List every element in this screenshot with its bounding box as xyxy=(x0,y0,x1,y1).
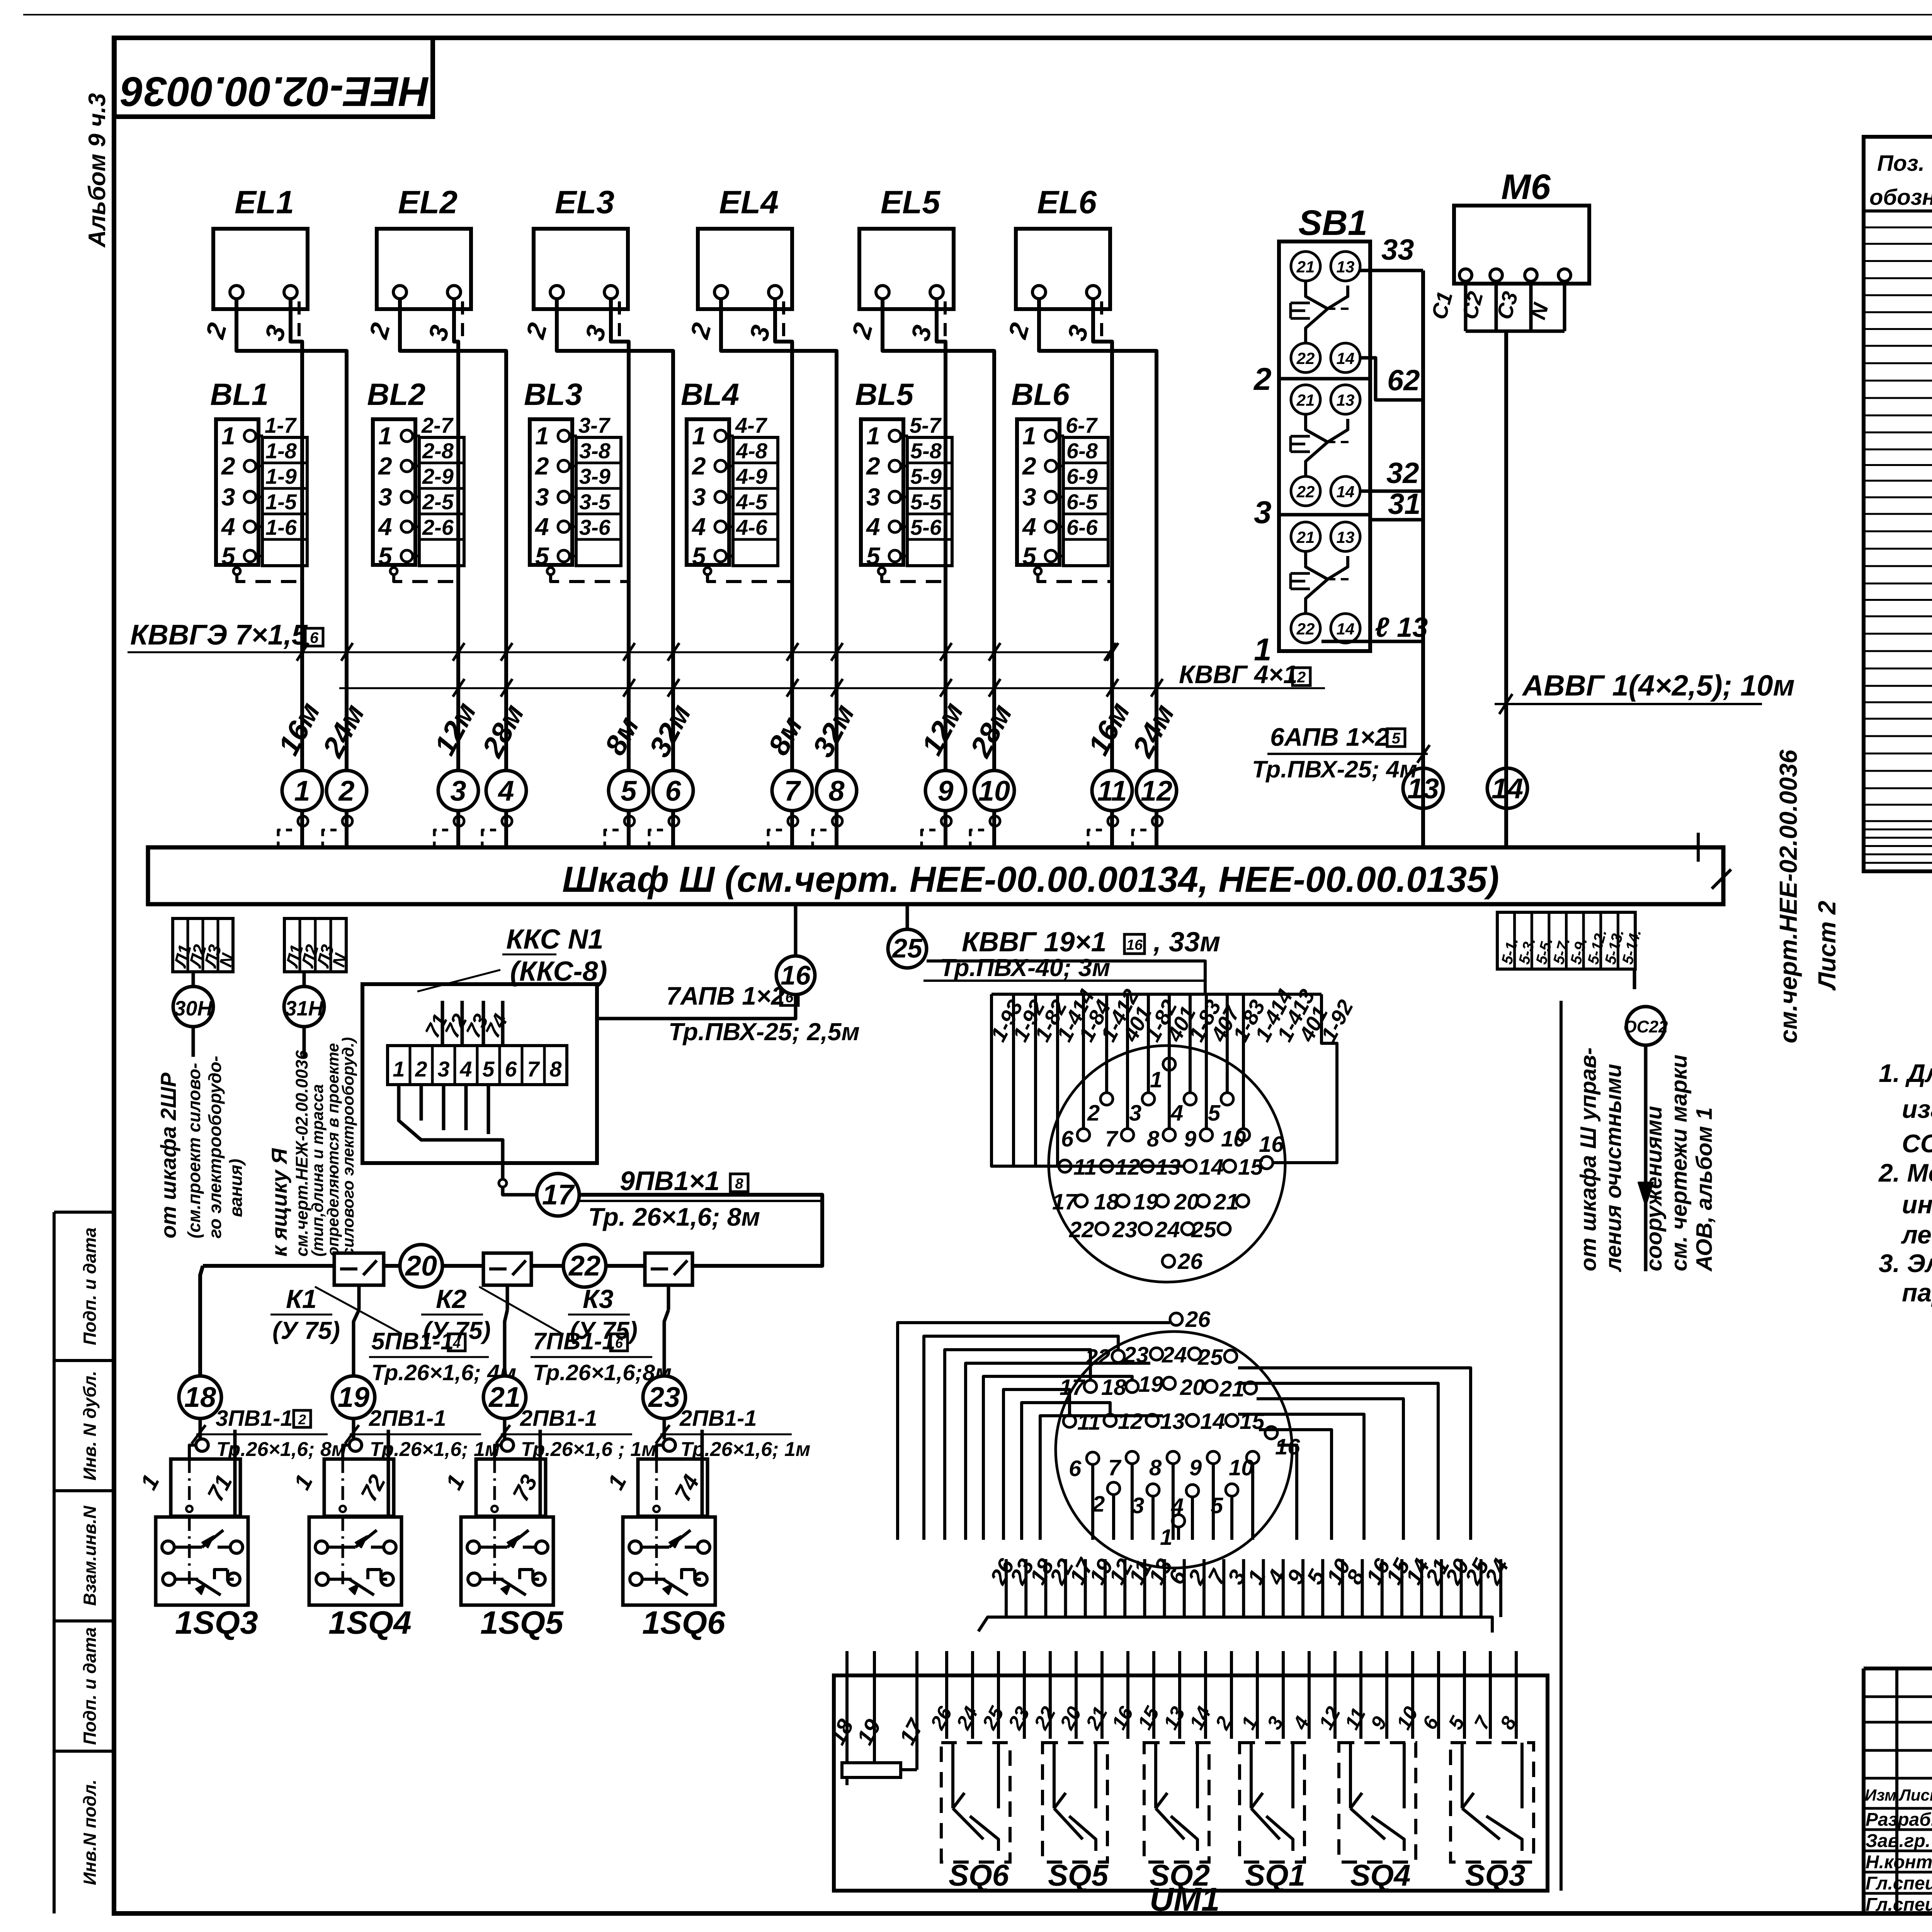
svg-text:13: 13 xyxy=(1337,391,1355,409)
svg-text:5: 5 xyxy=(1211,1493,1223,1518)
lamp EL3 box xyxy=(534,229,628,309)
node 22 xyxy=(563,1245,606,1287)
svg-text:1-7: 1-7 xyxy=(265,413,297,437)
SB1 wire 32 xyxy=(1360,490,1423,493)
cable crossing tick xyxy=(1151,679,1163,697)
svg-text:5: 5 xyxy=(482,1057,495,1081)
svg-text:1: 1 xyxy=(1254,632,1272,667)
M6 feeder wire xyxy=(1504,331,1508,847)
seal bracket below node 5 xyxy=(605,830,619,850)
upper connector pin 6 xyxy=(1077,1129,1090,1141)
upper connector pin 11 xyxy=(1059,1160,1071,1172)
lower bundle wire 8 xyxy=(1361,1559,1364,1617)
svg-text:5: 5 xyxy=(221,542,236,570)
cable crossing tick xyxy=(940,679,952,697)
lower nested wire right 3 xyxy=(1238,1414,1364,1540)
lower bundle wire 17 xyxy=(1084,1559,1087,1617)
svg-text:12: 12 xyxy=(1118,1409,1143,1434)
upper connector pin 13 xyxy=(1141,1160,1153,1172)
lower connector pin 1 xyxy=(1172,1515,1185,1527)
svg-text:3: 3 xyxy=(866,483,880,511)
lower bundle wire 22 xyxy=(1064,1559,1067,1617)
svg-text:Тр.ПВХ-25; 2,5м: Тр.ПВХ-25; 2,5м xyxy=(668,1018,860,1046)
switch 1SQ4 contacts xyxy=(315,1541,328,1553)
junction dot xyxy=(499,1179,507,1187)
BL4 dashed ground wire xyxy=(704,568,711,575)
svg-text:2-8: 2-8 xyxy=(422,439,454,463)
svg-text:ления очистными: ления очистными xyxy=(1601,1064,1626,1272)
upper connector pin 23 xyxy=(1139,1223,1151,1235)
upper connector drop wires xyxy=(1168,994,1171,1058)
wire 3 of EL3 xyxy=(611,299,629,847)
node 20 xyxy=(400,1245,442,1287)
lower connector pin 7 xyxy=(1126,1451,1138,1464)
upper connector pin 24 xyxy=(1182,1223,1194,1235)
svg-text:BL4: BL4 xyxy=(681,377,739,412)
cable crossing tick xyxy=(297,643,308,661)
title block small table xyxy=(1895,1668,1898,1913)
switch 1SQ5 entry loop xyxy=(501,1439,514,1451)
svg-text:КВВГ 19×1: КВВГ 19×1 xyxy=(962,927,1107,957)
cable crossing tick xyxy=(453,679,464,697)
cable crossing tick xyxy=(989,679,1000,697)
lower bundle wire 26 xyxy=(1005,1559,1008,1617)
svg-text:5: 5 xyxy=(378,542,393,570)
svg-text:Тр. 26×1,6; 8м: Тр. 26×1,6; 8м xyxy=(588,1202,760,1231)
svg-text:4-9: 4-9 xyxy=(736,464,767,488)
switch 1SQ6 dash-dot actuator xyxy=(655,1459,658,1507)
svg-text:1SQ5: 1SQ5 xyxy=(480,1604,564,1641)
svg-text:19: 19 xyxy=(1138,1372,1163,1397)
svg-text:SQ1: SQ1 xyxy=(1245,1858,1305,1892)
parts table position column subdivisions xyxy=(1864,226,1932,228)
cable crossing tick xyxy=(989,643,1000,661)
lower nested wire right 1 xyxy=(1277,1445,1297,1540)
svg-text:6-9: 6-9 xyxy=(1066,464,1098,488)
svg-text:Подп. и дата: Подп. и дата xyxy=(80,1228,100,1345)
svg-text:Изм: Изм xyxy=(1865,1786,1896,1804)
node 21 xyxy=(483,1376,526,1418)
cable crossing tick xyxy=(831,679,843,697)
svg-text:1SQ4: 1SQ4 xyxy=(328,1604,412,1641)
svg-text:6-7: 6-7 xyxy=(1066,413,1098,437)
svg-text:3: 3 xyxy=(535,483,549,511)
lamp EL4 terminal right xyxy=(769,286,782,299)
seal bracket below node 11 xyxy=(1088,830,1102,850)
UM1 resistor xyxy=(842,1763,901,1777)
svg-text:К3: К3 xyxy=(583,1284,614,1314)
seal bracket below node 8 xyxy=(813,830,827,850)
svg-text:4-8: 4-8 xyxy=(736,439,768,463)
lower connector pin 23 xyxy=(1150,1348,1163,1360)
lower nested wire 8 xyxy=(1040,1416,1163,1540)
upper connector pin 17 xyxy=(1075,1195,1087,1207)
BL5 wire-tag box xyxy=(907,437,952,566)
svg-text:СССР от 17.12.1979г. Н89Д.: СССР от 17.12.1979г. Н89Д. xyxy=(1902,1129,1932,1158)
svg-text:1: 1 xyxy=(535,422,549,450)
svg-text:2: 2 xyxy=(221,452,235,480)
svg-text:Инв.N подл.: Инв.N подл. xyxy=(80,1779,100,1885)
lower bundle wire 2 xyxy=(1202,1559,1206,1617)
SB1 section 3 contact symbol xyxy=(1306,414,1348,442)
svg-text:8: 8 xyxy=(549,1057,562,1081)
lower connector pin 20 xyxy=(1205,1380,1217,1393)
svg-text:2: 2 xyxy=(1092,1492,1105,1517)
lower bundle wire 23 xyxy=(1024,1559,1027,1617)
switch 1SQ3 dash-dot link xyxy=(188,1517,191,1584)
limit switch SQ5 xyxy=(1043,1743,1107,1862)
svg-text:2: 2 xyxy=(1022,452,1036,480)
upper connector pin 14 xyxy=(1184,1160,1196,1172)
ККС terminal strip xyxy=(388,1046,567,1085)
svg-text:7: 7 xyxy=(784,775,801,807)
svg-text:8: 8 xyxy=(828,775,845,807)
svg-text:16: 16 xyxy=(1126,937,1143,953)
svg-text:16: 16 xyxy=(781,960,811,990)
SB1 section 3 pin 22 xyxy=(1291,476,1320,506)
SB1 wire 62 xyxy=(1360,358,1423,400)
lamp EL2 terminal left xyxy=(393,286,406,299)
wire 3 of EL1 xyxy=(291,299,302,847)
svg-text:2: 2 xyxy=(378,452,392,480)
upper connector circle xyxy=(1049,1046,1285,1282)
svg-text:3: 3 xyxy=(1129,1100,1141,1126)
svg-text:EL4: EL4 xyxy=(719,184,779,220)
svg-text:2: 2 xyxy=(692,452,706,480)
lower bundle wire 24 xyxy=(1499,1559,1502,1617)
svg-text:6: 6 xyxy=(505,1057,517,1081)
upper connector pin 26 xyxy=(1162,1255,1175,1267)
switch 1SQ6 entry loop xyxy=(663,1439,675,1451)
switch 1SQ6 main box xyxy=(623,1517,715,1605)
upper connector pin 1 xyxy=(1163,1058,1175,1070)
ККС incoming wires 71-74 xyxy=(441,1001,444,1046)
lower connector pin 10 xyxy=(1247,1451,1259,1464)
svg-text:от шкафа Ш управ-: от шкафа Ш управ- xyxy=(1576,1048,1601,1271)
lower nested wire 6 xyxy=(1003,1389,1070,1540)
svg-text:вания): вания) xyxy=(226,1159,246,1217)
upper connector pin 2 xyxy=(1100,1093,1113,1105)
lower bundle wire 16 xyxy=(1381,1559,1384,1617)
svg-text:4: 4 xyxy=(221,513,235,541)
terminal strip 5-x (right) xyxy=(1497,912,1635,969)
switch 1SQ5 main box xyxy=(461,1517,553,1605)
wire 2 of EL6 xyxy=(1039,299,1156,847)
svg-text:5ПВ1-1: 5ПВ1-1 xyxy=(371,1328,454,1355)
seal bracket below node 9 xyxy=(922,830,935,850)
svg-text:22: 22 xyxy=(1296,483,1315,501)
upper connector pin 16 xyxy=(1260,1156,1273,1169)
lower nested wire right 6 xyxy=(1238,1368,1471,1540)
SB1 section 2 pin 14 xyxy=(1331,343,1360,372)
svg-text:3: 3 xyxy=(437,1057,449,1081)
switch 1SQ4 main box xyxy=(309,1517,401,1605)
wire 2 of EL5 xyxy=(883,299,994,847)
switch 1SQ5 dash-dot link xyxy=(493,1517,496,1584)
lower nested wire 4 xyxy=(966,1363,1150,1540)
SB1 section divider xyxy=(1279,513,1370,517)
svg-text:2-7: 2-7 xyxy=(421,413,454,437)
lower connector pin 21 xyxy=(1244,1382,1257,1394)
node 17 xyxy=(537,1173,579,1216)
upper connector pin 15 xyxy=(1223,1160,1236,1172)
lower connector pin 2 xyxy=(1107,1482,1120,1495)
svg-text:12: 12 xyxy=(1141,775,1172,807)
svg-text:Взам.инв.N: Взам.инв.N xyxy=(80,1505,100,1606)
svg-text:9: 9 xyxy=(1184,1126,1196,1151)
cable node 8 xyxy=(816,770,857,811)
page outer top edge xyxy=(23,14,1932,15)
svg-text:14: 14 xyxy=(1337,620,1355,638)
svg-text:2: 2 xyxy=(338,775,354,807)
svg-text:6: 6 xyxy=(615,1335,623,1351)
svg-text:изгибы, повороты и отходы согл: изгибы, повороты и отходы согласно письм… xyxy=(1902,1095,1932,1123)
svg-text:1: 1 xyxy=(866,422,880,450)
lower bundle wire 1 xyxy=(1262,1559,1265,1617)
upper connector nested L wires xyxy=(992,994,1059,1166)
lower connector pin 11 xyxy=(1063,1415,1076,1427)
svg-text:1-5: 1-5 xyxy=(265,490,297,514)
lamp EL2 terminal right xyxy=(447,286,461,299)
switch 1SQ4 upper box xyxy=(324,1459,394,1516)
SB1 section 2 pin 21 xyxy=(1291,252,1320,281)
lower bundle wire 19 xyxy=(1104,1559,1107,1617)
svg-text:1: 1 xyxy=(378,422,392,450)
svg-text:АВВГ 1(4×2,5); 10м: АВВГ 1(4×2,5); 10м xyxy=(1522,669,1795,702)
svg-text:20: 20 xyxy=(1174,1189,1199,1214)
svg-text:7ПВ1-1: 7ПВ1-1 xyxy=(533,1328,615,1355)
svg-text:4-7: 4-7 xyxy=(735,413,768,437)
svg-text:7: 7 xyxy=(1105,1126,1119,1151)
svg-text:11: 11 xyxy=(1097,775,1127,807)
svg-text:16: 16 xyxy=(1259,1132,1284,1157)
cable node 2 xyxy=(327,770,367,811)
svg-text:4: 4 xyxy=(1170,1100,1183,1126)
svg-text:4: 4 xyxy=(866,513,880,541)
svg-text:Тр.ПВХ-25; 4м: Тр.ПВХ-25; 4м xyxy=(1252,756,1417,783)
lower connector pin 19 xyxy=(1163,1377,1175,1389)
svg-text:8: 8 xyxy=(1147,1126,1160,1151)
album stamp box HEE-02.00.0036 xyxy=(114,38,433,117)
svg-text:АОВ, альбом 1: АОВ, альбом 1 xyxy=(1692,1107,1717,1272)
svg-text:1-8: 1-8 xyxy=(265,439,297,463)
upper nested bundle band xyxy=(992,993,1321,996)
seal bracket below node 2 xyxy=(323,830,337,850)
cable node 14 xyxy=(1487,768,1527,808)
upper connector pin 5 xyxy=(1221,1093,1233,1105)
BL5 dashed ground wire xyxy=(878,568,885,575)
lower bundle collector xyxy=(978,1617,1492,1633)
svg-text:31: 31 xyxy=(1388,488,1421,520)
lower nested wire 5 xyxy=(983,1376,1132,1540)
node 19 xyxy=(332,1376,375,1418)
switch 1SQ6 dash-dot link xyxy=(655,1517,658,1584)
BL3 wire-tag box xyxy=(576,437,621,566)
lamp EL5 box xyxy=(859,229,954,309)
svg-text:1-9: 1-9 xyxy=(265,464,297,488)
M6 terminal N xyxy=(1558,269,1571,281)
svg-text:К2: К2 xyxy=(436,1284,467,1314)
svg-text:3: 3 xyxy=(450,775,466,807)
svg-text:SB1: SB1 xyxy=(1298,203,1367,243)
cable crossing tick xyxy=(623,643,635,661)
seal bracket below node 3 xyxy=(434,830,448,850)
relay K1 box xyxy=(334,1253,384,1285)
svg-text:1: 1 xyxy=(1150,1067,1162,1092)
BL2 wire-tag box xyxy=(419,437,464,566)
cable crossing tick xyxy=(668,679,679,697)
BL6 dashed ground wire xyxy=(1034,568,1041,575)
lower connector pin 5 xyxy=(1226,1484,1238,1496)
svg-text:21: 21 xyxy=(1296,258,1315,276)
lower bundle wire 7 xyxy=(1222,1559,1225,1617)
svg-text:инструкции по монтажу защитног: инструкции по монтажу защитного заземлен… xyxy=(1902,1190,1932,1219)
lower bundle wire 5 xyxy=(1321,1559,1324,1617)
svg-text:13: 13 xyxy=(1156,1155,1181,1180)
cable crossing tick xyxy=(341,643,353,661)
terminal block BL1 body xyxy=(216,419,259,565)
cable crossing tick xyxy=(1104,643,1116,661)
cable node 3 xyxy=(438,770,478,811)
svg-text:21: 21 xyxy=(488,1381,520,1413)
svg-text:2ПВ1-1: 2ПВ1-1 xyxy=(679,1406,757,1431)
svg-text:22: 22 xyxy=(568,1250,600,1282)
lower connector pin 22 xyxy=(1112,1350,1124,1362)
svg-text:18: 18 xyxy=(1101,1375,1126,1400)
lower connector pin 9 xyxy=(1207,1451,1219,1464)
svg-text:BL3: BL3 xyxy=(524,377,582,412)
lower connector pin 18 xyxy=(1126,1380,1138,1393)
svg-text:BL2: BL2 xyxy=(367,377,425,412)
svg-text:4: 4 xyxy=(1022,513,1036,541)
cable crossing tick xyxy=(501,679,512,697)
seal bracket below node 7 xyxy=(768,830,782,850)
svg-text:21: 21 xyxy=(1219,1376,1245,1401)
svg-text:1SQ3: 1SQ3 xyxy=(175,1604,258,1641)
BL6 wire-tag box xyxy=(1063,437,1108,566)
lower connector pin drop wires xyxy=(1112,1495,1115,1540)
svg-text:SQ4: SQ4 xyxy=(1350,1858,1411,1892)
svg-text:Н.контр.: Н.контр. xyxy=(1866,1852,1932,1872)
relay bus wire xyxy=(203,1264,822,1268)
wire node 19 to switch xyxy=(352,1418,355,1439)
M6 terminal С1 xyxy=(1459,269,1472,281)
BL4 wire-tag box xyxy=(733,437,778,566)
lower bundle wire 10 xyxy=(1341,1559,1344,1617)
svg-text:4-5: 4-5 xyxy=(736,490,768,514)
svg-text:1-6: 1-6 xyxy=(265,515,297,539)
switch 1SQ6 contacts xyxy=(629,1541,641,1553)
cable crossing tick xyxy=(453,643,464,661)
svg-text:EL1: EL1 xyxy=(235,184,294,220)
svg-text:24: 24 xyxy=(1162,1342,1187,1367)
lower connector pin 4 xyxy=(1186,1485,1199,1497)
svg-text:17: 17 xyxy=(1052,1189,1078,1214)
BL1 wire-tag box xyxy=(262,437,307,566)
svg-text:19: 19 xyxy=(1133,1189,1158,1214)
svg-text:1: 1 xyxy=(221,422,235,450)
M6 terminal С3 xyxy=(1525,269,1537,281)
lamp EL4 box xyxy=(698,229,792,309)
svg-text:4: 4 xyxy=(378,513,392,541)
upper connector pin 19 xyxy=(1156,1195,1168,1207)
svg-text:5: 5 xyxy=(1392,730,1401,747)
lower nested wire 1 xyxy=(898,1323,1170,1540)
svg-text:3: 3 xyxy=(692,483,706,511)
SB1 section 2 pin 13 xyxy=(1331,252,1360,281)
upper connector pin 3 xyxy=(1142,1093,1155,1105)
lower bundle wire 13 xyxy=(1163,1559,1166,1617)
dashed neutral wire of EL2 xyxy=(461,301,464,342)
svg-text:32: 32 xyxy=(1386,457,1419,490)
switch 1SQ4 dash-dot actuator xyxy=(342,1459,344,1507)
cable crossing tick xyxy=(501,643,512,661)
SB1 section divider xyxy=(1279,377,1370,381)
wire 2 of EL4 xyxy=(721,299,837,847)
svg-text:1: 1 xyxy=(1022,422,1036,450)
svg-text:2. Монтаж защитного зануления: 2. Монтаж защитного зануления выполнить … xyxy=(1878,1158,1932,1187)
svg-text:(У 75): (У 75) xyxy=(272,1316,340,1344)
svg-text:5-5: 5-5 xyxy=(910,490,942,514)
svg-text:5: 5 xyxy=(866,542,881,570)
svg-text:3-8: 3-8 xyxy=(579,439,611,463)
svg-text:М6: М6 xyxy=(1501,167,1551,207)
cable crossing tick xyxy=(1107,643,1118,661)
marker box 5 xyxy=(1387,729,1405,747)
cable node 12 xyxy=(1136,770,1177,811)
SB1 section 3 pin 13 xyxy=(1331,385,1360,414)
wire from node 17 to relay bus xyxy=(579,1195,822,1266)
svg-text:Лист: Лист xyxy=(1898,1786,1932,1804)
svg-text:23: 23 xyxy=(1123,1342,1149,1367)
UM1 internal drop wires xyxy=(945,1651,948,1739)
lower connector pin 12 xyxy=(1104,1414,1116,1427)
lower connector pin 3 xyxy=(1147,1484,1159,1496)
feeder node 30Н xyxy=(192,972,195,986)
ККС outgoing wire bends xyxy=(399,1085,503,1180)
pushbutton block SB1 body xyxy=(1279,241,1370,651)
svg-text:сооружениями: сооружениями xyxy=(1641,1106,1667,1271)
switch 1SQ4 right wire xyxy=(387,1430,390,1516)
cabinet Шкаф Ш box xyxy=(148,847,1723,904)
terminal block BL6 body xyxy=(1017,419,1060,565)
lower bundle wire 4 xyxy=(1282,1559,1285,1617)
SB1 right bus wire xyxy=(1421,270,1425,847)
wire 3 of EL6 xyxy=(1093,299,1112,847)
cable crossing tick xyxy=(787,643,798,661)
seal bracket below node 1 xyxy=(278,830,292,850)
svg-text:1SQ6: 1SQ6 xyxy=(642,1604,726,1641)
svg-text:3: 3 xyxy=(1022,483,1036,511)
svg-text:6-5: 6-5 xyxy=(1066,490,1098,514)
svg-text:SQ3: SQ3 xyxy=(1465,1858,1526,1892)
cabinet right continuation marks xyxy=(1697,833,1700,862)
junction box ККС body xyxy=(362,984,597,1163)
switch 1SQ3 upper box xyxy=(171,1459,240,1516)
svg-text:20: 20 xyxy=(405,1250,437,1282)
cable node 11 xyxy=(1092,770,1132,811)
lamp EL1 terminal left xyxy=(230,286,243,299)
svg-text:2-6: 2-6 xyxy=(422,515,454,539)
upper connector pin 10 xyxy=(1237,1129,1250,1141)
wire 2 of EL1 xyxy=(236,299,347,847)
SB1 section 1 pin 21 xyxy=(1291,522,1320,551)
marker box 2 xyxy=(1293,668,1310,685)
svg-text:15: 15 xyxy=(1238,1155,1263,1180)
parts table header xyxy=(1864,209,1932,213)
switch 1SQ3 entry loop xyxy=(196,1439,208,1451)
relay K2 box xyxy=(483,1253,531,1285)
